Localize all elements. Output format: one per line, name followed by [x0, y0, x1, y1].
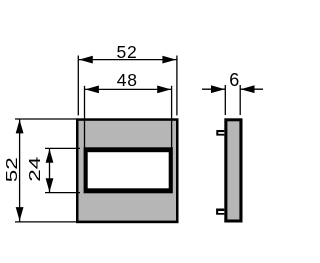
svg-text:6: 6 — [229, 70, 239, 90]
svg-text:52: 52 — [116, 42, 137, 62]
svg-text:48: 48 — [117, 70, 138, 90]
svg-text:24: 24 — [27, 156, 44, 181]
svg-text:52: 52 — [4, 157, 21, 182]
